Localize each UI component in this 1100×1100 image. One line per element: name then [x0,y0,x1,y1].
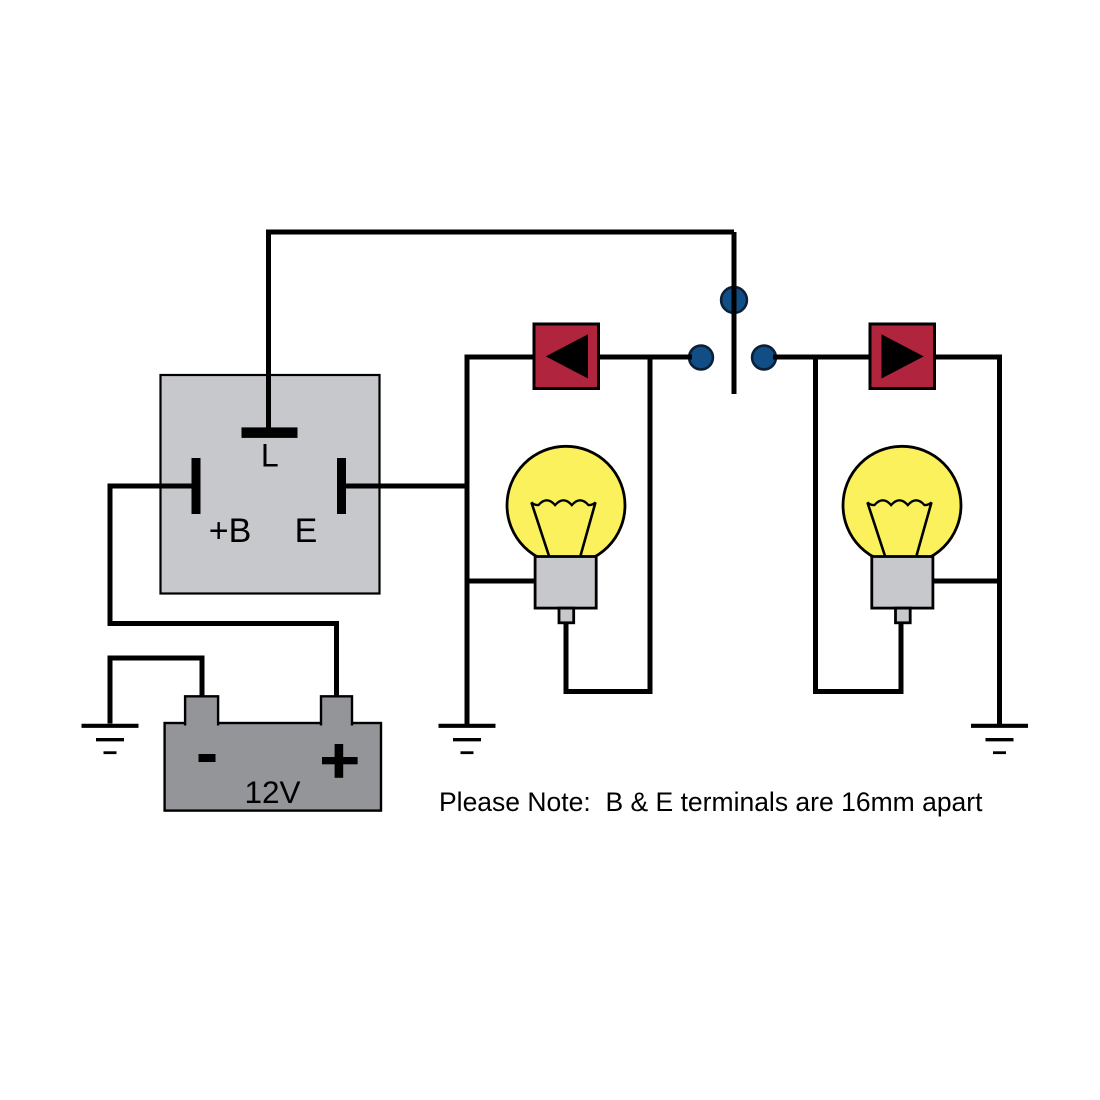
ground symbol (battery) [82,726,139,753]
node switch pivot (blue) [721,287,747,313]
terminal E bar [337,458,346,514]
wire right lamp base connection [930,579,1000,584]
wire +B to battery positive [110,486,337,700]
svg-text:+B: +B [209,512,252,550]
lamp L2 bulb glass [843,446,961,564]
lamp L2 base tab [896,608,911,623]
svg-text:L: L [261,438,279,474]
battery BT1 body [165,723,381,811]
indicator arrow right (red box) [870,324,935,389]
terminal +B bar [192,458,201,514]
lamp L1 bulb glass [507,446,625,564]
lamp L1 filament wavy line [531,500,595,505]
label plus [322,757,358,764]
wire right contact to right lamp loop [773,357,1000,726]
wire left lamp loop: left vertical and top run to left contact [467,357,692,726]
indicator arrow left (red box) [534,324,599,389]
lamp L1 base tab [559,608,574,623]
wire relay L to switch top run [269,232,735,430]
battery BT1 negative terminal [185,696,218,725]
ground symbol (left lamp) [439,726,496,753]
node switch contact right (blue) [752,346,776,370]
lamp L2 filament sides [867,502,931,557]
label minus [199,754,216,762]
battery BT1 positive terminal [321,696,352,725]
wire right lamp branch: switch wire down to lamp bottom [816,357,902,692]
ground symbol (right lamp) [971,726,1028,753]
wire left lamp base connection [467,579,537,584]
lamp L2 base [872,557,933,609]
svg-text:12V: 12V [244,774,300,810]
lamp L1 filament sides [531,502,595,557]
lamp L2 filament wavy line [867,500,931,505]
svg-text:Please Note: B & E terminals: Please Note: B & E terminals are 16mm ap… [439,787,983,817]
relay U1 body [161,375,380,594]
terminal L bar [242,427,298,438]
wire battery negative to ground [110,658,202,724]
svg-text:E: E [295,512,318,550]
switch lever [732,232,737,394]
lamp L1 base [535,557,596,609]
wire relay E to left lamp loop [344,484,470,489]
wire left lamp branch: switch wire down to lamp bottom [566,357,650,692]
node switch contact left (blue) [689,346,713,370]
